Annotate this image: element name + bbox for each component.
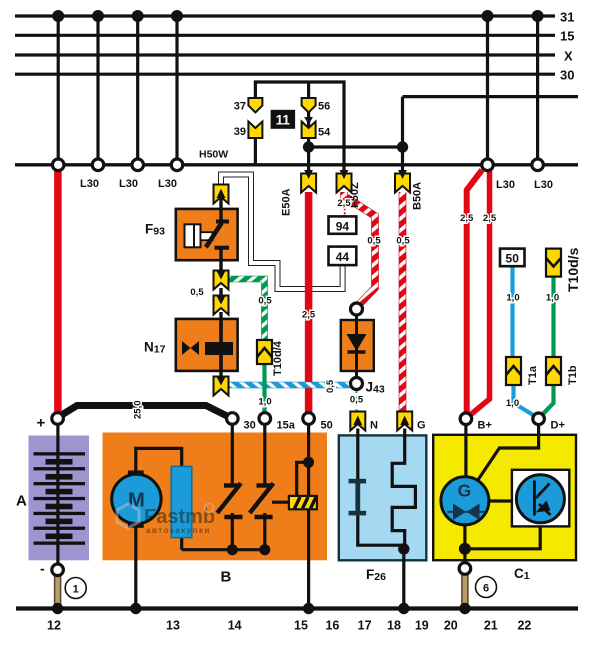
svg-text:B: B [221, 569, 232, 586]
svg-text:15: 15 [560, 29, 574, 44]
svg-text:19: 19 [415, 619, 429, 633]
svg-text:B+: B+ [478, 420, 492, 432]
svg-text:6: 6 [483, 583, 489, 595]
svg-text:T10d/4: T10d/4 [272, 340, 284, 376]
svg-text:L30: L30 [158, 178, 177, 190]
svg-text:0,5: 0,5 [396, 236, 410, 247]
svg-text:автозакупки: автозакупки [146, 526, 211, 535]
svg-text:1,0: 1,0 [546, 293, 559, 304]
svg-text:N: N [370, 420, 378, 432]
svg-text:31: 31 [560, 10, 574, 25]
svg-text:0,5: 0,5 [367, 236, 381, 247]
svg-text:A: A [16, 493, 27, 510]
svg-text:21: 21 [484, 619, 498, 633]
svg-text:13: 13 [166, 619, 180, 633]
svg-text:22: 22 [517, 619, 531, 633]
svg-text:H50W: H50W [199, 149, 228, 161]
svg-text:1,0: 1,0 [506, 398, 519, 409]
svg-text:0,5: 0,5 [325, 379, 336, 393]
svg-text:0,5: 0,5 [350, 395, 364, 406]
svg-text:2,5: 2,5 [337, 198, 351, 209]
svg-text:L30: L30 [534, 179, 553, 191]
svg-text:L30: L30 [119, 178, 138, 190]
svg-text:1,0: 1,0 [258, 397, 271, 408]
svg-text:B50A: B50A [412, 182, 424, 210]
svg-text:44: 44 [336, 250, 350, 264]
svg-text:15a: 15a [277, 420, 296, 432]
svg-text:+: + [37, 415, 46, 432]
svg-text:1,0: 1,0 [506, 293, 519, 304]
svg-text:T1b: T1b [567, 365, 579, 385]
svg-text:39: 39 [234, 126, 246, 138]
svg-text:L30: L30 [80, 178, 99, 190]
svg-text:2,5: 2,5 [302, 310, 316, 321]
svg-text:14: 14 [228, 619, 242, 633]
svg-text:56: 56 [318, 101, 330, 113]
svg-text:X: X [564, 49, 573, 64]
svg-text:2,5: 2,5 [483, 213, 497, 224]
svg-text:G: G [417, 420, 426, 432]
svg-text:F50Z: F50Z [349, 182, 361, 208]
svg-text:30: 30 [560, 68, 574, 83]
svg-text:54: 54 [318, 127, 331, 139]
svg-text:0,5: 0,5 [190, 287, 204, 298]
svg-text:50: 50 [506, 252, 520, 266]
svg-text:11: 11 [276, 113, 291, 128]
svg-text:37: 37 [234, 101, 246, 113]
svg-text:50: 50 [321, 420, 333, 432]
svg-text:15: 15 [294, 619, 308, 633]
svg-text:0,5: 0,5 [258, 296, 272, 307]
svg-text:D+: D+ [551, 420, 565, 432]
svg-text:T10d/s: T10d/s [565, 247, 581, 292]
svg-text:E50A: E50A [281, 188, 293, 216]
svg-text:16: 16 [325, 619, 339, 633]
svg-text:94: 94 [336, 219, 350, 233]
svg-text:25,0: 25,0 [133, 401, 144, 420]
svg-text:20: 20 [444, 619, 458, 633]
svg-text:18: 18 [387, 619, 401, 633]
svg-text:T1a: T1a [527, 365, 539, 385]
svg-text:12: 12 [47, 619, 61, 633]
svg-text:G: G [458, 481, 472, 501]
svg-text:1: 1 [73, 584, 79, 596]
svg-text:2,5: 2,5 [460, 213, 474, 224]
svg-text:L30: L30 [496, 179, 515, 191]
svg-text:30: 30 [244, 420, 256, 432]
svg-text:17: 17 [358, 619, 372, 633]
svg-text:-: - [40, 561, 45, 577]
